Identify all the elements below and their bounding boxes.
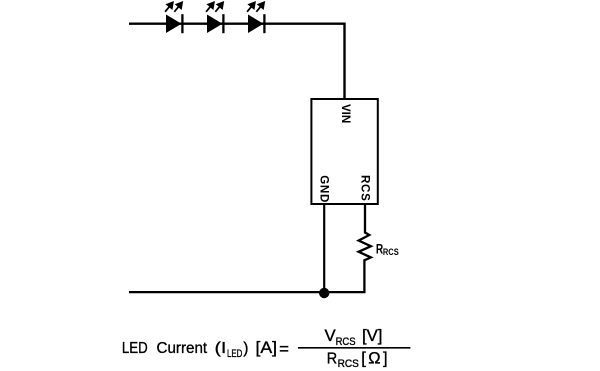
svg-text:[V]: [V] <box>362 327 382 345</box>
svg-text:Current: Current <box>157 340 208 357</box>
svg-text:(I: (I <box>215 340 227 357</box>
svg-text:=: = <box>279 340 289 358</box>
svg-text:GND: GND <box>318 175 331 202</box>
svg-text:[A]: [A] <box>256 339 278 357</box>
svg-text:R: R <box>327 350 337 367</box>
svg-text:LED: LED <box>122 340 148 357</box>
svg-text:RCS: RCS <box>338 358 359 370</box>
svg-text:): ) <box>243 340 248 357</box>
svg-text:LED: LED <box>227 348 242 360</box>
svg-text:V: V <box>325 327 336 345</box>
svg-text:VIN: VIN <box>339 104 352 123</box>
svg-text:RCS: RCS <box>383 247 399 257</box>
svg-text:RCS: RCS <box>336 336 356 348</box>
svg-text:[Ω]: [Ω] <box>361 349 387 367</box>
svg-text:RCS: RCS <box>358 175 371 201</box>
